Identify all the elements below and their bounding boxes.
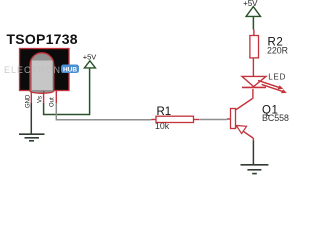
wire Vs horizontal to +5V riser bbox=[43, 114, 90, 116]
pin 2 Vs lead bbox=[43, 91, 45, 103]
wire Out horizontal to R1 bbox=[56, 119, 152, 121]
resistor R1 body bbox=[156, 116, 194, 122]
wire emitter to ground bbox=[252, 140, 254, 164]
R2 top pin bbox=[253, 30, 255, 36]
LED light arrow 1 bbox=[258, 80, 283, 89]
R1 right pin stub bbox=[194, 119, 200, 121]
LED diode triangle bbox=[242, 76, 266, 86]
wire riser up to +5V arrow bbox=[89, 68, 91, 115]
Q1 emitter diagonal bbox=[236, 126, 254, 138]
TSOP front panel bbox=[32, 61, 53, 91]
wire Out pin down bbox=[55, 103, 57, 120]
ground symbol left bbox=[19, 134, 45, 141]
svg-text:LED: LED bbox=[268, 73, 286, 82]
transistor base lead bbox=[227, 118, 231, 120]
wire R1 to transistor base bbox=[199, 119, 227, 121]
TSOP dome bbox=[30, 53, 54, 94]
ground symbol right bbox=[241, 165, 269, 174]
svg-text:10k: 10k bbox=[155, 121, 170, 131]
svg-text:HUB: HUB bbox=[63, 66, 77, 73]
svg-text:Out: Out bbox=[50, 97, 56, 107]
pin 3 Out lead bbox=[55, 91, 57, 103]
svg-text:+5V: +5V bbox=[83, 52, 97, 61]
wire +5V to R2 bbox=[252, 16, 254, 29]
Q1 collector vertical to LED bbox=[252, 89, 254, 99]
wire Vs pin down bbox=[43, 103, 45, 115]
R1 left pin stub bbox=[151, 119, 156, 121]
watermark HUB badge bbox=[61, 65, 79, 74]
+5V arrow right bbox=[246, 7, 260, 17]
svg-text:BC558: BC558 bbox=[262, 113, 289, 123]
Q1 collector diagonal bbox=[236, 99, 253, 111]
+5V arrow left bbox=[84, 61, 95, 68]
svg-text:Vs: Vs bbox=[37, 96, 43, 103]
Q1 emitter arrow (PNP) bbox=[236, 126, 246, 134]
svg-text:+5V: +5V bbox=[243, 0, 258, 8]
LED cathode bar bbox=[242, 86, 266, 88]
resistor R2 body bbox=[250, 36, 259, 58]
svg-text:TSOP1738: TSOP1738 bbox=[7, 31, 78, 47]
Q1 emitter pin down bbox=[252, 138, 254, 140]
svg-text:220R: 220R bbox=[267, 45, 288, 55]
TSOP1738 body bbox=[20, 49, 70, 91]
LED anode pin up bbox=[252, 58, 254, 76]
transistor Q1 base bar bbox=[231, 109, 236, 129]
pin 1 GND lead bbox=[30, 91, 32, 103]
wire GND pin to ground bbox=[30, 103, 32, 134]
svg-text:R1: R1 bbox=[157, 106, 172, 118]
LED light arrow 2 bbox=[262, 84, 287, 93]
